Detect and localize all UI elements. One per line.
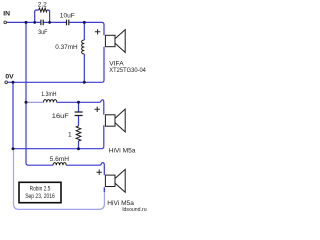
svg-text:1.3mH: 1.3mH (41, 91, 56, 98)
svg-text:10uF: 10uF (60, 12, 75, 19)
svg-text:1: 1 (68, 131, 72, 138)
svg-text:HiVi M5a: HiVi M5a (109, 148, 136, 155)
svg-text:IN: IN (3, 10, 10, 17)
svg-text:16uF: 16uF (52, 113, 69, 120)
svg-text:3uF: 3uF (38, 29, 47, 36)
svg-text:Robin 2.5: Robin 2.5 (30, 185, 51, 192)
svg-text:Sep 23, 2016: Sep 23, 2016 (25, 193, 55, 200)
svg-text:2.2: 2.2 (38, 1, 47, 8)
svg-text:0.37mH: 0.37mH (55, 44, 78, 51)
svg-text:XT25TG30-04: XT25TG30-04 (109, 67, 146, 74)
svg-text:HiVi M5a: HiVi M5a (107, 200, 134, 207)
svg-text:5.6mH: 5.6mH (50, 156, 70, 163)
svg-text:0V: 0V (5, 74, 14, 81)
svg-text:ldsound.ru: ldsound.ru (122, 207, 146, 213)
